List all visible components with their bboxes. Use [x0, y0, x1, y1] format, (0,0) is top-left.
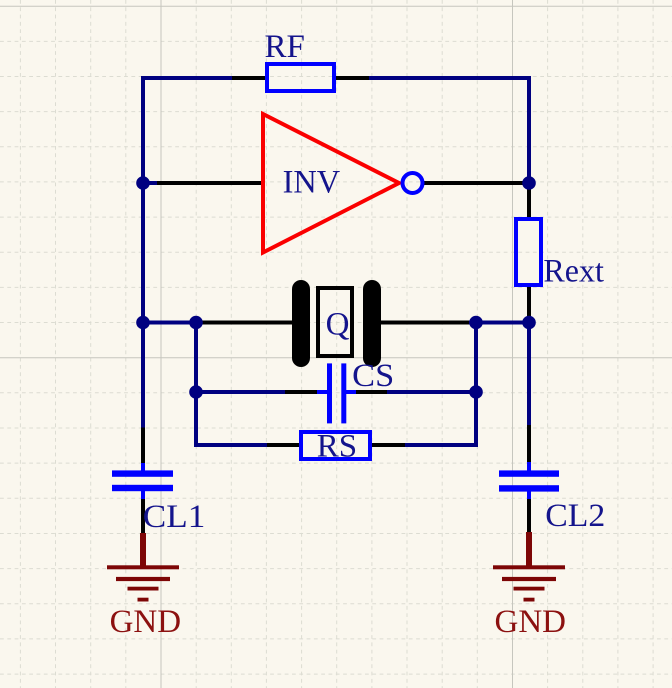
- ground left bar 3: [128, 587, 159, 591]
- wire mid rail vertical: [194, 321, 198, 448]
- wire RF to top-right corner: [367, 76, 531, 80]
- svg-text:Rext: Rext: [543, 253, 604, 289]
- junction mid rail / CS row: [189, 385, 203, 399]
- ground right bar 1: [493, 565, 565, 569]
- capacitor CL2 plate 2: [499, 485, 559, 491]
- ground left stem: [140, 533, 146, 567]
- capacitor CL1 top stub: [141, 463, 145, 471]
- svg-text:Q: Q: [326, 307, 350, 343]
- ground right bar 2: [502, 577, 556, 581]
- crystal Q right electrode: [363, 280, 381, 367]
- svg-text:GND: GND: [495, 604, 567, 640]
- wire left rail vertical: [141, 76, 145, 428]
- wire output to right rail: [523, 181, 530, 185]
- capacitor CL2 pin 2: [527, 499, 531, 532]
- wire CS row left: [196, 390, 286, 394]
- wire top-left to RF: [141, 76, 234, 80]
- inverter INV output pin: [422, 181, 525, 185]
- junction right rail / crystal row: [522, 316, 536, 330]
- crystal Q body: [318, 288, 352, 356]
- resistor RF: [267, 64, 334, 91]
- junction mid rail / crystal row: [189, 316, 203, 330]
- wire RS row left: [196, 443, 269, 447]
- capacitor CS right stub: [345, 390, 356, 394]
- junction right col / CS row: [469, 385, 483, 399]
- resistor Rext pin 2: [527, 285, 531, 322]
- svg-text:CS: CS: [352, 358, 394, 394]
- ground right stem: [526, 532, 532, 567]
- resistor RS pin 1: [267, 443, 300, 447]
- svg-text:INV: INV: [283, 164, 341, 200]
- wire stub to INV input: [143, 181, 158, 185]
- capacitor CS pin 1: [285, 390, 318, 394]
- svg-text:RS: RS: [317, 428, 357, 464]
- junction node INV output / right rail: [522, 176, 536, 190]
- ground left bar 4: [138, 598, 149, 602]
- capacitor CL1 pin 2: [141, 499, 145, 533]
- junction node INV input / left rail: [136, 176, 150, 190]
- capacitor CS pin 2: [355, 390, 387, 394]
- capacitor CL1 plate 1: [112, 470, 173, 476]
- ground right bar 3: [514, 587, 545, 591]
- wire RS row right: [403, 443, 476, 447]
- capacitor CL2 plate 1: [499, 470, 559, 476]
- wire crystal row left: [143, 321, 201, 325]
- resistor Rext pin 1: [527, 183, 531, 219]
- junction left rail / crystal row: [136, 316, 150, 330]
- capacitor CL2 top stub: [527, 462, 531, 471]
- capacitor CL2 bottom stub: [527, 491, 531, 500]
- capacitor CS plate 2: [341, 363, 346, 423]
- capacitor CL1 pin 1: [141, 428, 145, 465]
- capacitor CS plate 1: [327, 363, 332, 423]
- svg-text:GND: GND: [110, 604, 182, 640]
- inverter INV triangle: [263, 114, 399, 253]
- resistor RS pin 2: [371, 443, 405, 447]
- svg-text:CL2: CL2: [545, 498, 605, 534]
- capacitor CS left stub: [317, 390, 328, 394]
- crystal Q left electrode: [292, 280, 310, 367]
- svg-text:CL1: CL1: [143, 499, 206, 535]
- resistor RF pin 2: [335, 76, 369, 80]
- junction right col / crystal row: [469, 316, 483, 330]
- wire CS row right: [385, 390, 476, 394]
- wire right rail lower vertical: [527, 323, 531, 427]
- capacitor CL1 bottom stub: [141, 491, 145, 500]
- inverter INV input pin: [157, 181, 263, 185]
- ground left bar 1: [107, 565, 179, 569]
- crystal Q pin 1: [199, 321, 295, 325]
- wire right junction col vertical: [474, 321, 478, 448]
- resistor RF pin 1: [232, 76, 266, 80]
- crystal Q pin 2: [378, 321, 469, 325]
- ground right bar 4: [524, 598, 535, 602]
- capacitor CL1 plate 2: [112, 485, 173, 491]
- capacitor CL2 pin 1: [527, 425, 531, 464]
- ground left bar 2: [116, 577, 170, 581]
- inverter INV bubble: [403, 173, 423, 193]
- resistor RS: [301, 432, 370, 459]
- wire right rail top vertical: [527, 76, 531, 183]
- resistor Rext: [516, 219, 541, 285]
- svg-text:RF: RF: [265, 29, 305, 65]
- wire crystal row right: [467, 321, 529, 325]
